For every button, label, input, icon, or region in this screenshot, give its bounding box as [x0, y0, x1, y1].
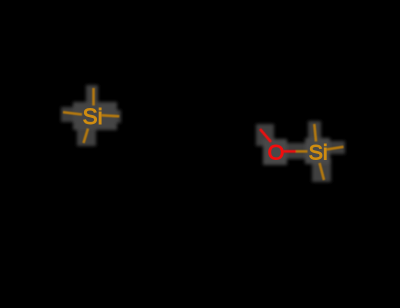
- jpeg artifact halos: right silyl ether group: [256, 121, 345, 182]
- svg-text:O: O: [268, 141, 285, 165]
- jpeg artifact halos: left trimethylsilyl group: [61, 85, 121, 146]
- bond Si-CH3 left (half): [63, 112, 82, 114]
- svg-text:Si: Si: [83, 104, 103, 129]
- bond Si-CH3 down-left (half): [84, 129, 89, 144]
- bond O-Si : Si half gold: [296, 150, 308, 153]
- bond Si-C(aryl) right (half): [102, 115, 120, 116]
- svg-text:Si: Si: [309, 140, 328, 164]
- bond Si-CH3 down-right (half): [320, 163, 325, 180]
- bond CH2-O diagonal (O half, red): [260, 129, 271, 142]
- bond Si-CH3 up (half): [92, 88, 95, 106]
- bond Si-CH3 up (half): [314, 124, 316, 142]
- bond Si-CH3 right (half): [327, 147, 344, 150]
- bond O-Si : O half red: [284, 150, 297, 153]
